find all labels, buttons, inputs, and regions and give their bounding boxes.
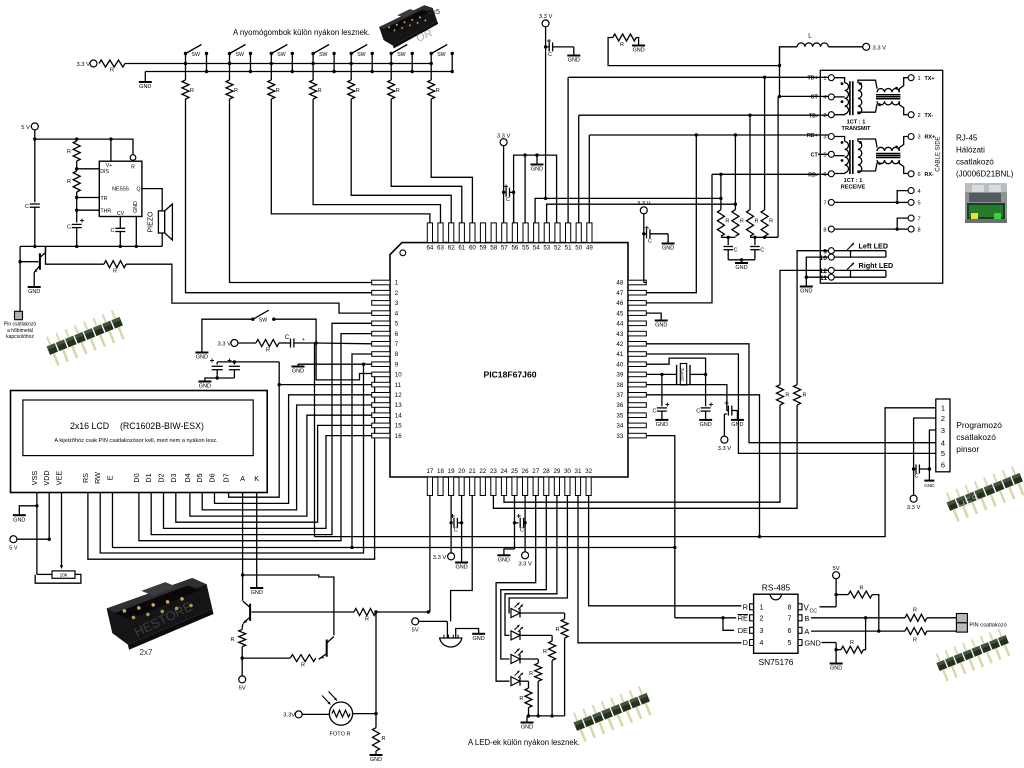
wire R1 to pin 2 [186, 99, 372, 293]
svg-text:23: 23 [490, 468, 497, 475]
wire ICSP2 VDD [914, 418, 936, 495]
svg-text:A LED-ek külön nyákon lesznek.: A LED-ek külön nyákon lesznek. [468, 738, 580, 747]
svg-text:R: R [556, 627, 560, 633]
wire pin 9 row to ground [298, 363, 372, 365]
svg-text:SW: SW [236, 52, 244, 58]
wire D1 run to pin 5 [151, 323, 372, 534]
svg-text:R: R [110, 68, 114, 74]
svg-text:5V: 5V [833, 566, 840, 572]
wire pot right loop [35, 574, 81, 583]
wire TR [77, 197, 100, 199]
wire term rail 1 [721, 236, 736, 238]
photo pin header (bottom) [570, 685, 654, 743]
svg-text:GND: GND [924, 483, 935, 488]
ground (pin 20) [461, 496, 463, 563]
svg-text:RX-: RX- [925, 172, 934, 178]
svg-text:(J0006D21BNL): (J0006D21BNL) [956, 170, 1014, 179]
power terminal 3.3V (ICSP) [910, 495, 917, 502]
svg-text:2x5: 2x5 [428, 7, 440, 16]
wire 3.3V pin 57 [503, 146, 505, 223]
svg-text:SW: SW [319, 52, 327, 58]
wire right LED R to pin 24 [504, 405, 780, 502]
svg-text:24: 24 [501, 468, 508, 475]
svg-text:R: R [913, 638, 917, 644]
resistor R term1 [717, 210, 724, 237]
svg-text:58: 58 [490, 245, 497, 252]
resistor R (555 upper) [73, 141, 80, 161]
svg-text:55: 55 [522, 245, 529, 252]
capacitor C (pin57 bridge) [504, 191, 506, 193]
svg-text:R: R [850, 640, 854, 646]
svg-text:45: 45 [616, 310, 623, 317]
wire 5V to VDD [17, 538, 49, 540]
transformer left pin circles [828, 75, 834, 81]
svg-text:C: C [520, 528, 524, 534]
wire GND pin5 [822, 642, 837, 644]
wire Q1 collector [45, 246, 47, 253]
svg-text:3: 3 [395, 300, 399, 307]
ground (bias R) [636, 38, 638, 46]
svg-text:38: 38 [616, 382, 623, 389]
capacitor C (term1) [727, 237, 729, 245]
crystal X1 25MHz [676, 365, 678, 384]
svg-text:1: 1 [823, 76, 826, 82]
svg-text:C: C [548, 52, 552, 58]
wire reset switch to ground [202, 319, 253, 352]
LED D2 [511, 631, 520, 640]
wire transistor base (555) [20, 261, 38, 263]
transistor Q1 (555) [39, 253, 41, 269]
wire SW1 right contact [206, 54, 208, 72]
svg-text:10k: 10k [60, 573, 68, 579]
svg-text:DIS: DIS [100, 169, 109, 175]
svg-text:2: 2 [918, 113, 921, 119]
svg-text:15: 15 [395, 423, 402, 430]
svg-text:SW: SW [192, 52, 200, 58]
svg-text:GND: GND [804, 639, 820, 648]
power terminal 5V (buzzer) [412, 618, 419, 625]
svg-text:GND: GND [370, 757, 382, 763]
svg-text:3: 3 [918, 135, 921, 141]
wire THR [77, 209, 100, 211]
svg-text:4: 4 [760, 640, 764, 647]
svg-text:1CT : 1: 1CT : 1 [847, 120, 866, 126]
svg-text:41: 41 [616, 351, 623, 358]
wire vcap to pin 11 [278, 362, 280, 385]
svg-text:1: 1 [395, 280, 399, 287]
svg-text:GND: GND [656, 422, 668, 428]
svg-text:49: 49 [586, 245, 593, 252]
svg-text:csatlakozó: csatlakozó [956, 158, 994, 167]
wire LED pin 9 [797, 251, 828, 385]
wire 3.3V to pin 54 and bias [535, 198, 721, 223]
wire pin 31 to RS-485 D [578, 496, 741, 643]
wire pin 37 long [646, 395, 759, 537]
svg-text:D4: D4 [183, 473, 192, 482]
svg-text:GND: GND [568, 58, 580, 64]
svg-text:6: 6 [823, 172, 826, 178]
RS-485 pin brackets [750, 604, 754, 610]
resistor R (Q2 emitter) [239, 630, 246, 647]
wire D7 run to pin 11 [229, 385, 372, 498]
svg-text:37: 37 [616, 392, 623, 399]
wire R5 to pin 62 [351, 99, 451, 223]
capacitor C+ (vcap2) [233, 362, 235, 365]
svg-text:R: R [301, 663, 305, 669]
svg-text:R: R [67, 179, 71, 185]
capacitor C+ (pin 38 vddcore) [646, 385, 728, 411]
svg-text:1: 1 [918, 76, 921, 82]
resistor R term4 [761, 210, 768, 237]
wire backlight K to ground [256, 497, 258, 588]
svg-text:12: 12 [395, 392, 402, 399]
svg-text:PIC18F67J60: PIC18F67J60 [483, 370, 536, 380]
svg-text:64: 64 [426, 245, 433, 252]
svg-text:TR: TR [101, 196, 108, 202]
resistor R (bias top) [613, 34, 637, 41]
svg-text:GND: GND [139, 84, 151, 90]
svg-text:GND: GND [699, 422, 711, 428]
svg-text:R: R [740, 219, 744, 225]
wire SW6 left contact [390, 54, 392, 81]
resistor R (LED1) [561, 619, 568, 638]
wire 3.3V top drop [545, 27, 547, 199]
microphone buzzer MIC1 [439, 637, 462, 639]
wire L to CT [780, 47, 798, 97]
svg-text:RS: RS [81, 473, 90, 483]
svg-text:52: 52 [554, 245, 561, 252]
wire MCLR to ICSP pin1 line [314, 343, 316, 537]
svg-text:5: 5 [395, 321, 399, 328]
connector PIN csatlakozo [956, 614, 967, 623]
svg-text:D7: D7 [222, 473, 231, 482]
resistor R (B pull-down) [836, 649, 841, 651]
wire collector-R to pin 4 [126, 264, 372, 313]
resistor R (LED3) [535, 663, 542, 681]
svg-text:GND: GND [735, 265, 747, 271]
svg-text:TX-: TX- [925, 113, 934, 119]
wire 3.3V to pin 48 [643, 214, 645, 283]
svg-text:CT: CT [811, 153, 819, 159]
svg-text:8: 8 [918, 227, 921, 233]
svg-text:D0: D0 [132, 473, 141, 482]
svg-text:A kijelzőhöz csak PIN csatlako: A kijelzőhöz csak PIN csatlakozósor kell… [54, 438, 218, 444]
svg-text:62: 62 [448, 245, 455, 252]
pin stubs bottom 17-32 [427, 477, 432, 496]
resistor R (fotor divider) [375, 714, 377, 728]
svg-text:RD+: RD+ [807, 133, 818, 139]
svg-text:Left LED: Left LED [859, 242, 889, 251]
svg-text:R: R [276, 88, 280, 94]
svg-text:GND: GND [13, 517, 25, 523]
ground (pin 45) [646, 313, 661, 320]
svg-text:GND: GND [800, 289, 812, 295]
svg-text:R: R [860, 586, 864, 592]
wire pin 25 gnd [514, 496, 516, 550]
svg-text:3.3 V: 3.3 V [217, 342, 231, 348]
svg-text:GND: GND [830, 666, 842, 672]
wire pin 42 to ICSP4 [646, 344, 936, 443]
wire pin 33 to RS-485 RE [646, 436, 675, 618]
svg-text:L: L [808, 33, 812, 40]
svg-text:THR: THR [101, 209, 112, 215]
svg-text:C: C [760, 248, 764, 254]
svg-text:20: 20 [458, 468, 465, 475]
svg-text:D1: D1 [144, 473, 153, 482]
svg-text:R: R [725, 219, 729, 225]
svg-text:K: K [254, 474, 259, 483]
wire D4 run to pin 14 [190, 415, 372, 516]
ethernet transformer box [820, 70, 942, 283]
svg-text:R: R [382, 736, 386, 742]
svg-text:39: 39 [616, 372, 623, 379]
wire R7 to pin 60 [431, 99, 472, 223]
svg-text:GND: GND [133, 201, 139, 213]
ground (osc1) [655, 419, 668, 421]
wire to thermal pin connector [19, 246, 21, 311]
svg-text:D3: D3 [169, 473, 178, 482]
svg-text:TRANSMIT: TRANSMIT [842, 126, 871, 132]
svg-text:3: 3 [823, 135, 826, 141]
wire A to transistors [242, 575, 244, 601]
svg-text:R: R [913, 608, 917, 614]
wire bus1 3.3V switches [125, 63, 430, 65]
svg-text:1: 1 [760, 604, 764, 611]
svg-text:1CT : 1: 1CT : 1 [844, 178, 863, 184]
transistor Q3 (backlight driver) [326, 640, 328, 657]
svg-text:Programozó: Programozó [956, 420, 1002, 430]
svg-text:51: 51 [565, 245, 572, 252]
svg-text:Pin csatlakozó: Pin csatlakozó [4, 322, 36, 328]
ground (term caps) [728, 259, 755, 261]
svg-text:4: 4 [941, 439, 945, 448]
wire bias R left [608, 38, 779, 66]
svg-text:D5: D5 [195, 473, 204, 482]
svg-text:R: R [755, 219, 759, 225]
resistor R3 (pull) [268, 80, 275, 99]
reset pin circle (555 R) [130, 155, 136, 161]
svg-text:R: R [231, 637, 235, 643]
svg-text:18: 18 [437, 468, 444, 475]
svg-text:pinsor: pinsor [956, 444, 979, 454]
wire LED1 cathode [520, 612, 565, 614]
capacitor C+ (vcap1) [216, 362, 218, 365]
wire 555 output Q [142, 189, 162, 211]
wire term rail 2 [750, 236, 778, 238]
svg-text:R: R [543, 649, 547, 655]
resistor R (A series) [905, 628, 927, 635]
svg-text:SW: SW [397, 52, 405, 58]
svg-text:56: 56 [511, 245, 518, 252]
transformer T-receive [845, 142, 849, 173]
svg-text:C: C [67, 225, 71, 231]
resistor R (switch bus) [99, 60, 125, 67]
svg-text:GND: GND [472, 636, 484, 642]
ic U3 SN75176 box [754, 594, 798, 653]
wire pin 19 vdd [450, 496, 452, 553]
wire pin 41 to ICSP5 [646, 354, 936, 453]
pin stubs right 33-48 [628, 433, 646, 438]
svg-text:5: 5 [823, 153, 826, 159]
svg-text:5: 5 [788, 640, 792, 647]
svg-text:D6: D6 [208, 473, 217, 482]
wire SW1 left contact [185, 54, 187, 81]
svg-text:R: R [803, 393, 807, 399]
power terminal 3.3V (pin19) [448, 553, 455, 560]
resistor R (B series) [905, 614, 927, 621]
photo pin header (ICSP) [943, 465, 1024, 523]
svg-text:SW: SW [437, 52, 445, 58]
svg-text:(RC1602B-BIW-ESX): (RC1602B-BIW-ESX) [120, 421, 204, 431]
svg-text:5 V: 5 V [21, 125, 30, 131]
svg-text:9: 9 [395, 361, 399, 368]
wire Q2 base line [252, 611, 355, 613]
svg-text:48: 48 [616, 280, 623, 287]
wire D3 run to pin 15 [176, 425, 372, 522]
svg-text:60: 60 [469, 245, 476, 252]
LED right (RJ45) [834, 269, 886, 271]
svg-text:57: 57 [501, 245, 508, 252]
svg-text:59: 59 [480, 245, 487, 252]
resistor R (right LED) [777, 385, 784, 405]
svg-text:14: 14 [395, 412, 402, 419]
capacitor C (MCLR inline) [279, 342, 291, 344]
svg-text:8: 8 [395, 351, 399, 358]
svg-text:A: A [240, 474, 245, 483]
wire RE-DE tie [721, 616, 724, 619]
svg-text:2: 2 [941, 414, 945, 423]
svg-text:3.3 V: 3.3 V [637, 201, 651, 207]
switch SW2 [228, 52, 231, 55]
photo RJ-45 jack [965, 183, 1007, 223]
svg-text:SW: SW [259, 318, 267, 324]
svg-text:26: 26 [522, 468, 529, 475]
svg-text:RJ-45: RJ-45 [956, 134, 978, 143]
svg-text:32: 32 [585, 468, 592, 475]
svg-text:GND: GND [731, 422, 743, 428]
svg-text:GND: GND [196, 355, 208, 361]
power terminal 5V (RS-485) [833, 572, 840, 579]
wire SW7 left contact [430, 54, 432, 81]
wire LCD pin stubs [36, 493, 38, 498]
svg-text:4: 4 [823, 95, 826, 101]
svg-text:R: R [67, 149, 71, 155]
LED D4 [511, 677, 520, 686]
svg-text:SW: SW [277, 52, 285, 58]
wire RD- line [712, 173, 828, 175]
wire D2 run to pin 16 [164, 436, 372, 529]
power terminal 3.3V (vddcore) [721, 436, 728, 443]
ground (VSS rail) [536, 155, 538, 164]
wire D0 run to pin 6 [139, 334, 372, 541]
wire CT transmit line [778, 95, 828, 97]
resistor R (collector to pin4) [46, 246, 105, 264]
svg-text:C: C [734, 248, 738, 254]
wire 5V rail 555 [35, 130, 133, 155]
wire SW5 left contact [350, 54, 352, 81]
svg-text:B: B [804, 614, 809, 623]
svg-text:R: R [785, 393, 789, 399]
svg-text:CT: CT [811, 95, 819, 101]
wire CT riser to term rail [777, 96, 779, 237]
svg-text:3.3 V: 3.3 V [518, 562, 532, 568]
svg-text:30: 30 [564, 468, 571, 475]
resistor R4 (pull) [310, 80, 317, 99]
svg-text:R: R [436, 88, 440, 94]
svg-text:8: 8 [788, 604, 792, 611]
LED left (RJ45) [834, 250, 886, 252]
photoresistor FOTO R [329, 702, 352, 725]
wire RS run [88, 374, 375, 560]
wire SW2 right contact [250, 54, 252, 72]
svg-text:31: 31 [575, 468, 582, 475]
svg-text:7: 7 [823, 201, 826, 207]
wire SW2 left contact [229, 54, 231, 81]
svg-text:63: 63 [437, 245, 444, 252]
wire RD+ to R term2 [734, 135, 736, 210]
wire ICSP3 GND [929, 430, 935, 481]
wire pin 47 riser to RD+ [646, 135, 696, 293]
wire pin 39 to crystal [646, 373, 676, 375]
wire TD+ to R term4 [764, 77, 766, 209]
capacitor C (osc1) [661, 374, 663, 406]
op-amp U1 NE555 box [99, 161, 142, 216]
svg-text:GND: GND [531, 167, 543, 173]
wire B line [811, 617, 905, 619]
svg-text:GND: GND [521, 725, 533, 731]
potentiometer 10k [52, 571, 75, 578]
wire crystal right [690, 373, 706, 375]
svg-text:A nyomógombok külön nyákon les: A nyomógombok külön nyákon lesznek. [233, 28, 370, 37]
svg-text:43: 43 [616, 331, 623, 338]
resistor R5 (pull) [348, 80, 355, 99]
resistor R term3 [747, 210, 754, 237]
svg-text:2x16 LCD: 2x16 LCD [70, 421, 109, 431]
wire RD+ line [589, 134, 828, 136]
wire pin 27 to LED4 [496, 496, 536, 682]
resistor R2 (pull) [226, 80, 233, 99]
svg-text:R: R [190, 88, 194, 94]
svg-text:NE555: NE555 [112, 187, 129, 193]
svg-text:VSS: VSS [30, 471, 39, 486]
ground (switch bus) [144, 72, 146, 83]
svg-text:50: 50 [575, 245, 582, 252]
svg-text:3.3 V: 3.3 V [76, 62, 90, 68]
wire VCC [820, 606, 837, 608]
svg-text:10: 10 [395, 372, 402, 379]
svg-text:1: 1 [941, 404, 945, 413]
svg-text:a hőbimetál: a hőbimetál [7, 328, 33, 334]
wire A line [811, 630, 905, 632]
svg-text:36: 36 [616, 402, 623, 409]
svg-text:21: 21 [469, 468, 476, 475]
svg-text:RD-: RD- [808, 173, 818, 179]
svg-text:R: R [769, 219, 773, 225]
power terminal 3.3V (pin26) [522, 552, 529, 559]
svg-text:47: 47 [616, 290, 623, 297]
svg-text:29: 29 [553, 468, 560, 475]
svg-text:SW: SW [357, 52, 365, 58]
resistor R (Q3 base) [242, 657, 290, 659]
LED D3 [511, 655, 520, 664]
ground (3.3V top cap) [573, 47, 575, 56]
wire MCLR jog to pin 10 [316, 343, 372, 380]
svg-text:3.3 V: 3.3 V [433, 555, 447, 561]
wire buzzer to ground [456, 629, 479, 639]
wire 555 GND pin [135, 217, 137, 247]
resistor R (LED4) [525, 688, 532, 708]
svg-text:+: + [302, 337, 305, 343]
